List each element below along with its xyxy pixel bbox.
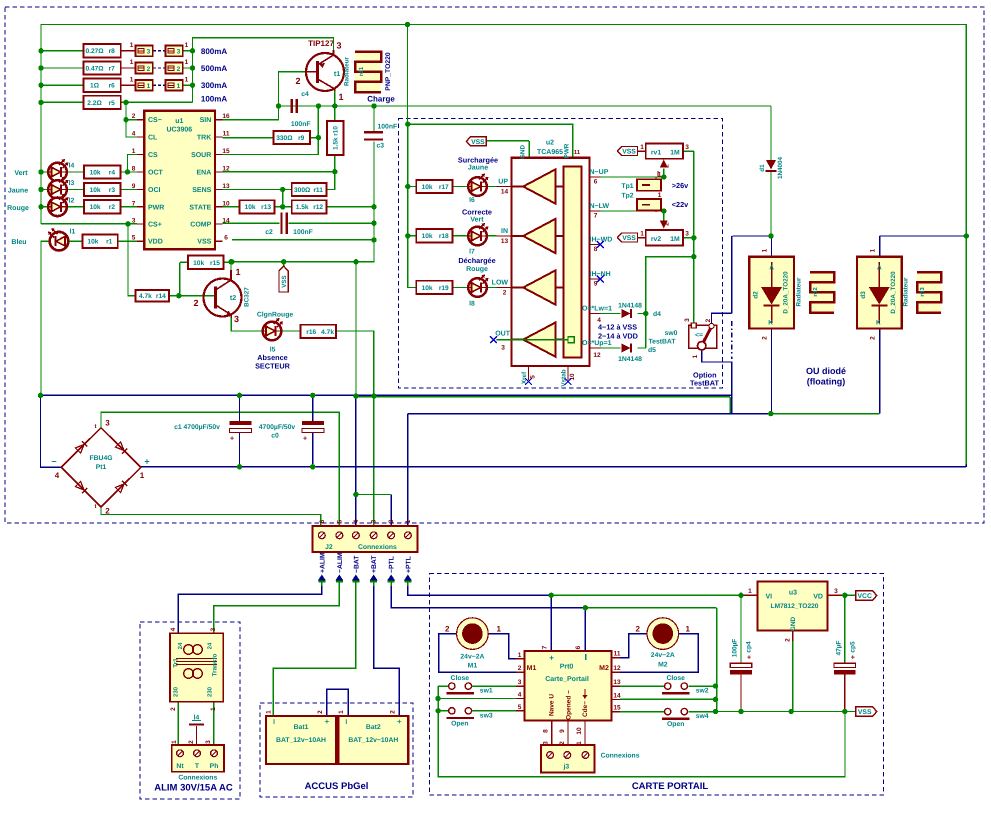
svg-text:4: 4 (353, 519, 360, 523)
svg-text:1: 1 (748, 588, 752, 595)
svg-text:r19: r19 (439, 285, 449, 292)
svg-text:Bat2: Bat2 (366, 724, 381, 731)
svg-text:Tp1: Tp1 (621, 183, 633, 190)
svg-text:1N4148: 1N4148 (618, 303, 642, 310)
svg-text:12: 12 (222, 166, 230, 173)
svg-text:1: 1 (692, 354, 699, 358)
svg-text:+: + (230, 436, 234, 443)
svg-text:t: t (95, 424, 97, 430)
svg-text:IH−WD: IH−WD (590, 236, 613, 243)
svg-text:r5: r5 (109, 100, 116, 107)
svg-text:100nF: 100nF (291, 121, 311, 128)
svg-text:24v−2A: 24v−2A (460, 654, 484, 661)
svg-text:TIP127: TIP127 (308, 39, 334, 48)
svg-text:Nt: Nt (176, 763, 184, 770)
svg-text:Pt1: Pt1 (96, 464, 107, 471)
svg-text:4.7k: 4.7k (139, 293, 152, 300)
svg-text:14: 14 (613, 692, 621, 699)
svg-text:r11: r11 (313, 187, 323, 194)
svg-text:IH−NH: IH−NH (590, 271, 611, 278)
svg-text:CL: CL (148, 135, 158, 142)
svg-text:<=: <= (695, 332, 703, 339)
svg-text:Close: Close (666, 675, 685, 682)
svg-text:230: 230 (173, 686, 180, 697)
svg-text:4: 4 (132, 131, 136, 138)
svg-text:1N4148: 1N4148 (618, 356, 642, 363)
svg-text:2: 2 (869, 336, 876, 340)
svg-text:3: 3 (147, 49, 151, 56)
svg-text:3: 3 (501, 345, 505, 352)
svg-text:l4: l4 (69, 163, 75, 170)
svg-text:1: 1 (658, 192, 662, 199)
svg-text:c0: c0 (271, 433, 279, 440)
svg-text:2: 2 (445, 625, 450, 634)
svg-text:O=*Lw=1: O=*Lw=1 (582, 306, 612, 313)
svg-text:1: 1 (210, 707, 217, 711)
svg-text:1: 1 (171, 740, 178, 744)
svg-text:Carte_Portail: Carte_Portail (545, 675, 589, 683)
svg-text:Opened −: Opened − (566, 690, 573, 720)
svg-text:−BAT: −BAT (353, 555, 360, 573)
svg-text:PWR: PWR (564, 143, 571, 158)
svg-text:r16: r16 (306, 329, 316, 336)
svg-text:2: 2 (503, 289, 507, 296)
svg-text:2: 2 (177, 66, 181, 73)
svg-text:O=*Up=1: O=*Up=1 (582, 340, 612, 347)
svg-text:3: 3 (684, 318, 691, 322)
svg-text:rd3: rd3 (919, 287, 926, 297)
svg-text:d5: d5 (648, 347, 656, 354)
svg-text:1: 1 (658, 172, 662, 179)
svg-text:5: 5 (530, 375, 537, 379)
svg-text:1N4004: 1N4004 (777, 156, 784, 179)
svg-text:TRK: TRK (197, 135, 211, 142)
svg-text:+: + (747, 655, 751, 662)
svg-text:d3: d3 (860, 291, 867, 299)
svg-text:15: 15 (222, 148, 230, 155)
svg-text:u1: u1 (175, 118, 183, 125)
svg-text:3: 3 (205, 740, 212, 744)
svg-text:N−LW: N−LW (590, 203, 610, 210)
svg-text:M2: M2 (658, 662, 668, 669)
svg-text:r1: r1 (106, 239, 113, 246)
svg-text:r7: r7 (109, 65, 116, 72)
svg-text:Surchargée: Surchargée (458, 156, 498, 165)
svg-text:11: 11 (223, 131, 230, 138)
svg-text:3: 3 (132, 217, 136, 224)
svg-text:100nF: 100nF (293, 229, 313, 236)
svg-text:1.5k r10: 1.5k r10 (333, 126, 340, 150)
svg-text:5: 5 (132, 235, 136, 242)
svg-text:2: 2 (147, 66, 151, 73)
svg-text:24: 24 (177, 642, 184, 649)
svg-text:13: 13 (613, 679, 621, 686)
svg-text:1: 1 (177, 83, 181, 90)
svg-text:STATE: STATE (189, 204, 211, 211)
svg-text:−: − (51, 457, 56, 467)
svg-text:1Ω: 1Ω (90, 83, 100, 90)
svg-text:10k: 10k (90, 187, 101, 194)
svg-text:r14: r14 (156, 293, 166, 300)
svg-text:Connexions: Connexions (358, 544, 397, 551)
svg-text:800mA: 800mA (201, 47, 227, 56)
svg-text:VCC: VCC (858, 593, 872, 600)
svg-text:100µF: 100µF (732, 639, 739, 658)
svg-text:+: + (397, 717, 402, 726)
svg-text:ENA: ENA (197, 170, 212, 177)
svg-text:l8: l8 (469, 301, 475, 308)
svg-text:15: 15 (613, 705, 621, 712)
svg-text:2: 2 (317, 710, 324, 714)
svg-text:l7: l7 (469, 249, 475, 256)
svg-text:3: 3 (685, 231, 689, 238)
svg-text:2: 2 (664, 222, 671, 226)
svg-text:9: 9 (132, 183, 136, 190)
svg-text:3: 3 (518, 679, 522, 686)
svg-text:c2: c2 (265, 229, 273, 236)
svg-text:COMP: COMP (190, 221, 211, 228)
svg-text:4: 4 (55, 471, 60, 480)
svg-text:4700µF/50v: 4700µF/50v (259, 424, 296, 431)
svg-text:330Ω: 330Ω (276, 135, 293, 142)
svg-text:r18: r18 (439, 233, 449, 240)
svg-text:6: 6 (224, 235, 228, 242)
svg-text:j3: j3 (562, 764, 569, 771)
svg-text:l6: l6 (469, 197, 475, 204)
svg-text:CARTE PORTAIL: CARTE PORTAIL (632, 781, 709, 792)
svg-text:Jaune: Jaune (8, 188, 28, 195)
svg-text:c3: c3 (377, 143, 385, 150)
svg-text:LOW: LOW (492, 279, 509, 286)
svg-text:r6: r6 (109, 83, 116, 90)
svg-text:Vert: Vert (14, 170, 28, 177)
svg-text:1: 1 (185, 76, 189, 83)
svg-text:7: 7 (132, 200, 136, 207)
svg-text:TCA965: TCA965 (537, 149, 563, 156)
svg-text:rv2: rv2 (651, 236, 661, 243)
svg-text:11: 11 (574, 150, 581, 156)
svg-text:t: t (95, 504, 97, 510)
svg-text:4: 4 (170, 627, 177, 631)
svg-text:d4: d4 (653, 311, 661, 318)
svg-text:IN: IN (501, 228, 508, 235)
svg-text:2−14 à VDD: 2−14 à VDD (598, 332, 638, 341)
svg-text:+: + (144, 457, 149, 467)
svg-text:Ph: Ph (210, 763, 219, 770)
svg-text:PNP_TO220: PNP_TO220 (385, 52, 392, 91)
svg-text:rd2: rd2 (812, 287, 819, 297)
svg-text:2: 2 (762, 336, 769, 340)
svg-text:cp5: cp5 (849, 641, 856, 653)
svg-text:11: 11 (614, 651, 621, 658)
svg-text:r12: r12 (313, 204, 323, 211)
svg-text:24: 24 (207, 642, 214, 649)
svg-text:Close: Close (451, 675, 470, 682)
svg-text:10: 10 (576, 727, 583, 735)
svg-text:1M: 1M (670, 236, 680, 243)
svg-text:+: + (549, 653, 554, 662)
svg-text:c4: c4 (301, 91, 309, 98)
svg-text:2.2Ω: 2.2Ω (87, 100, 102, 107)
svg-text:J2: J2 (325, 544, 333, 551)
svg-text:10: 10 (222, 200, 230, 207)
svg-text:t2: t2 (230, 295, 236, 302)
svg-text:Vstab: Vstab (561, 369, 568, 386)
svg-text:VSS: VSS (281, 275, 288, 287)
svg-text:2: 2 (388, 519, 395, 523)
svg-text:12: 12 (613, 665, 621, 672)
svg-text:OUT: OUT (495, 330, 511, 337)
svg-text:10k: 10k (90, 204, 101, 211)
svg-text:VD: VD (813, 593, 823, 600)
svg-text:K: K (768, 320, 773, 327)
svg-text:+PTL: +PTL (405, 556, 412, 573)
svg-text:Radiateur: Radiateur (902, 277, 909, 307)
svg-text:−ALIM: −ALIM (337, 552, 344, 573)
svg-text:K: K (876, 320, 881, 327)
svg-text:3: 3 (105, 419, 110, 428)
svg-text:ALIM 30V/15A AC: ALIM 30V/15A AC (154, 783, 233, 794)
svg-text:GND: GND (520, 145, 527, 159)
svg-text:Prt0: Prt0 (560, 663, 574, 670)
svg-text:d2: d2 (752, 291, 759, 299)
svg-text:Bleu: Bleu (11, 238, 26, 246)
svg-text:Open: Open (451, 720, 468, 727)
svg-text:2: 2 (664, 164, 671, 168)
svg-text:9: 9 (559, 729, 566, 733)
svg-text:3: 3 (234, 314, 239, 324)
svg-text:d1: d1 (759, 164, 766, 172)
svg-text:1: 1 (130, 76, 134, 83)
svg-text:TestBAT: TestBAT (649, 339, 677, 346)
svg-text:10k: 10k (422, 233, 433, 240)
svg-text:3: 3 (834, 588, 838, 595)
svg-text:4.7k: 4.7k (321, 329, 334, 336)
svg-text:N−UP: N−UP (590, 169, 609, 176)
svg-text:Radiateur: Radiateur (344, 56, 351, 86)
svg-text:1: 1 (338, 92, 343, 102)
svg-text:CS−: CS− (148, 117, 162, 124)
svg-text:r3: r3 (109, 187, 116, 194)
svg-text:−PTL: −PTL (389, 556, 396, 573)
svg-text:13: 13 (501, 238, 509, 245)
svg-text:1M: 1M (670, 150, 680, 157)
svg-text:1: 1 (685, 625, 690, 634)
svg-text:3: 3 (685, 144, 689, 151)
svg-text:300mA: 300mA (201, 81, 227, 90)
svg-text:5: 5 (518, 704, 522, 711)
svg-text:2: 2 (785, 638, 792, 642)
svg-text:c1 4700µF/50v: c1 4700µF/50v (174, 424, 220, 431)
svg-text:GND: GND (790, 616, 797, 631)
svg-text:UP: UP (498, 178, 508, 185)
svg-text:l: l (273, 719, 275, 726)
svg-text:16: 16 (222, 113, 230, 120)
svg-text:+: + (303, 436, 307, 443)
svg-text:r13: r13 (261, 204, 271, 211)
svg-text:6: 6 (319, 519, 326, 523)
svg-text:10k: 10k (87, 239, 98, 246)
svg-text:SOUR: SOUR (191, 152, 211, 159)
svg-text:u2: u2 (546, 140, 554, 147)
svg-text:VSS: VSS (622, 149, 636, 156)
svg-text:1: 1 (640, 144, 644, 151)
svg-text:CS: CS (148, 152, 158, 159)
svg-text:2: 2 (705, 318, 712, 322)
svg-text:Tp2: Tp2 (621, 193, 633, 200)
svg-text:10k: 10k (422, 285, 433, 292)
svg-text:SECTEUR: SECTEUR (255, 362, 291, 371)
svg-text:14: 14 (222, 217, 230, 224)
svg-text:Tr1: Tr1 (173, 658, 180, 668)
svg-text:0.27Ω: 0.27Ω (85, 48, 104, 55)
svg-text:1: 1 (185, 42, 189, 49)
svg-text:PWR: PWR (148, 204, 164, 211)
svg-text:2: 2 (295, 76, 300, 86)
svg-text:D_20A_TO220: D_20A_TO220 (890, 271, 897, 314)
svg-text:10k: 10k (193, 260, 204, 267)
svg-text:24v−2A: 24v−2A (651, 652, 675, 659)
svg-text:Cde−: Cde− (582, 701, 589, 717)
svg-text:1: 1 (130, 42, 134, 49)
svg-text:4−12 à VSS: 4−12 à VSS (598, 323, 637, 332)
svg-text:VSS: VSS (197, 239, 211, 246)
svg-text:Connexions: Connexions (178, 775, 217, 782)
svg-text:Déchargée: Déchargée (458, 256, 495, 265)
svg-text:1: 1 (762, 248, 769, 252)
svg-text:3: 3 (210, 627, 217, 631)
svg-text:Charge: Charge (367, 95, 395, 104)
svg-text:SENS: SENS (192, 187, 211, 194)
svg-text:A: A (877, 265, 882, 272)
svg-text:BAT_12v−10AH: BAT_12v−10AH (348, 737, 398, 744)
svg-text:13: 13 (222, 183, 230, 190)
svg-text:>26v: >26v (672, 181, 689, 190)
svg-text:l1: l1 (70, 229, 76, 236)
svg-text:VI: VI (766, 593, 773, 600)
svg-text:rd1: rd1 (358, 66, 365, 76)
svg-text:ClgnRouge: ClgnRouge (257, 312, 293, 319)
svg-text:VSS: VSS (622, 235, 636, 242)
svg-text:sw4: sw4 (696, 713, 709, 720)
svg-text:l3: l3 (69, 180, 75, 187)
svg-text:(floating): (floating) (807, 377, 846, 387)
svg-text:r15: r15 (210, 260, 220, 267)
svg-text:10k: 10k (90, 169, 101, 176)
svg-text:Bat1: Bat1 (294, 724, 309, 731)
svg-text:3: 3 (371, 519, 378, 523)
svg-text:BAT_12v−10AH: BAT_12v−10AH (276, 737, 326, 744)
svg-text:10k: 10k (245, 204, 256, 211)
svg-text:1: 1 (130, 59, 134, 66)
svg-text:BC327: BC327 (244, 287, 251, 307)
svg-text:+: + (325, 717, 330, 726)
svg-text:4: 4 (518, 692, 522, 699)
svg-text:M1: M1 (527, 665, 537, 672)
svg-text:500mA: 500mA (201, 64, 227, 73)
svg-text:UC3906: UC3906 (166, 127, 192, 134)
svg-text:CS+: CS+ (148, 221, 162, 228)
svg-text:1: 1 (132, 148, 136, 155)
svg-text:300Ω: 300Ω (294, 187, 311, 194)
svg-text:OCT: OCT (148, 170, 164, 177)
svg-text:r17: r17 (439, 184, 449, 191)
svg-text:Radiateur: Radiateur (795, 277, 802, 307)
svg-text:OU diodé: OU diodé (806, 366, 846, 376)
svg-text:1.5k: 1.5k (296, 204, 309, 211)
svg-text:2: 2 (518, 665, 522, 672)
svg-text:sw0: sw0 (665, 330, 678, 337)
svg-text:VSS: VSS (471, 139, 485, 146)
svg-text:Rouge: Rouge (7, 205, 29, 212)
svg-text:Open: Open (667, 721, 684, 728)
svg-text:100mA: 100mA (201, 95, 227, 104)
svg-text:8: 8 (132, 166, 136, 173)
svg-text:0.47Ω: 0.47Ω (85, 65, 104, 72)
svg-text:VDD: VDD (148, 239, 163, 246)
svg-text:l: l (345, 719, 347, 726)
svg-text:10k: 10k (422, 184, 433, 191)
svg-text:sw3: sw3 (480, 712, 493, 719)
svg-text:r4: r4 (109, 169, 116, 176)
svg-text:r9: r9 (298, 135, 305, 142)
svg-text:47µF: 47µF (835, 641, 842, 656)
svg-text:2: 2 (132, 113, 136, 120)
svg-text:8: 8 (543, 729, 550, 733)
svg-text:Rouge: Rouge (466, 266, 488, 273)
svg-text:2: 2 (188, 740, 195, 744)
svg-text:+: + (851, 655, 855, 662)
svg-text:cp4: cp4 (746, 641, 753, 653)
svg-text:14: 14 (501, 188, 509, 195)
svg-text:1: 1 (640, 231, 644, 238)
svg-text:2: 2 (635, 625, 640, 634)
svg-text:12: 12 (593, 352, 601, 359)
svg-text:6: 6 (575, 645, 582, 649)
svg-text:2: 2 (105, 507, 110, 516)
svg-text:1: 1 (338, 710, 345, 714)
svg-text:5: 5 (336, 519, 343, 523)
svg-text:7: 7 (594, 213, 598, 220)
svg-text:7: 7 (542, 645, 549, 649)
svg-text:rv1: rv1 (651, 150, 661, 157)
svg-text:M2: M2 (599, 665, 609, 672)
svg-text:3: 3 (336, 41, 341, 51)
svg-text:+BAT: +BAT (371, 555, 378, 573)
svg-text:t1: t1 (334, 71, 340, 78)
svg-text:Correcte: Correcte (462, 208, 492, 217)
svg-text:2: 2 (170, 707, 177, 711)
svg-text:+ALIM: +ALIM (319, 552, 326, 573)
svg-text:r2: r2 (109, 204, 116, 211)
svg-text:Nave U: Nave U (549, 694, 556, 716)
svg-text:1: 1 (140, 471, 145, 480)
svg-text:sw2: sw2 (696, 688, 709, 695)
svg-text:3: 3 (177, 49, 181, 56)
svg-text:SIN: SIN (200, 117, 212, 124)
svg-text:r8: r8 (109, 48, 116, 55)
svg-text:2: 2 (389, 710, 396, 714)
svg-text:TestBAT: TestBAT (690, 379, 719, 388)
svg-text:l2: l2 (69, 197, 75, 204)
svg-text:1: 1 (235, 267, 240, 277)
svg-text:sw1: sw1 (480, 688, 493, 695)
svg-text:1: 1 (185, 59, 189, 66)
svg-text:FBU4G: FBU4G (89, 455, 112, 462)
svg-text:LM7812_TO220: LM7812_TO220 (771, 603, 819, 610)
svg-text:1: 1 (147, 83, 151, 90)
svg-text:6: 6 (594, 179, 598, 186)
